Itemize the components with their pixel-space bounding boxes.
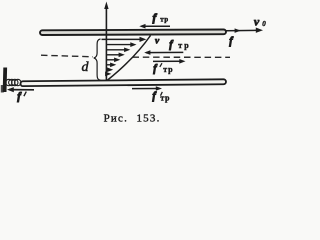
svg-text:0: 0 xyxy=(262,20,266,28)
svg-text:тр: тр xyxy=(160,16,168,24)
svg-text:v: v xyxy=(254,15,260,29)
svg-text:d: d xyxy=(82,60,90,75)
svg-text:тр: тр xyxy=(160,94,170,103)
svg-text:тр: тр xyxy=(178,41,190,50)
svg-text:тр: тр xyxy=(163,65,173,74)
svg-text:Рис. 153.: Рис. 153. xyxy=(104,113,161,125)
